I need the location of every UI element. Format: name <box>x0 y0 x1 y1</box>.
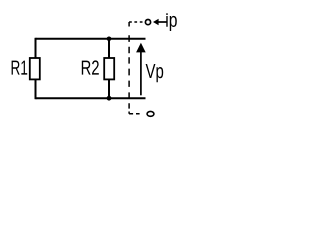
label Vp <box>146 64 164 82</box>
node: bottom junction <box>107 96 112 101</box>
terminal: top pin circle <box>145 20 150 25</box>
wire: dashed port top horizontal <box>129 21 142 23</box>
resistor R1 <box>30 58 40 79</box>
wire: dashed port vertical line <box>128 22 130 114</box>
wire: R2 bottom lead <box>108 80 110 99</box>
label R2 <box>82 60 99 74</box>
arrow ip: current arrow pointing left <box>158 21 167 23</box>
wire: dashed port bottom horizontal <box>129 113 140 115</box>
label R1 <box>12 61 28 75</box>
terminal: bottom pin ellipse <box>147 111 154 116</box>
wire: bottom horizontal net <box>36 97 146 99</box>
label ip <box>166 13 177 31</box>
wire: R1 top lead <box>35 38 37 58</box>
wire: R2 top lead <box>108 39 110 58</box>
wire: R1 bottom lead <box>35 80 37 100</box>
resistor R2 <box>104 58 114 79</box>
wire: top horizontal net <box>36 38 146 40</box>
arrow Vp: voltage arrow pointing up <box>140 52 142 96</box>
node: top junction <box>107 37 112 42</box>
